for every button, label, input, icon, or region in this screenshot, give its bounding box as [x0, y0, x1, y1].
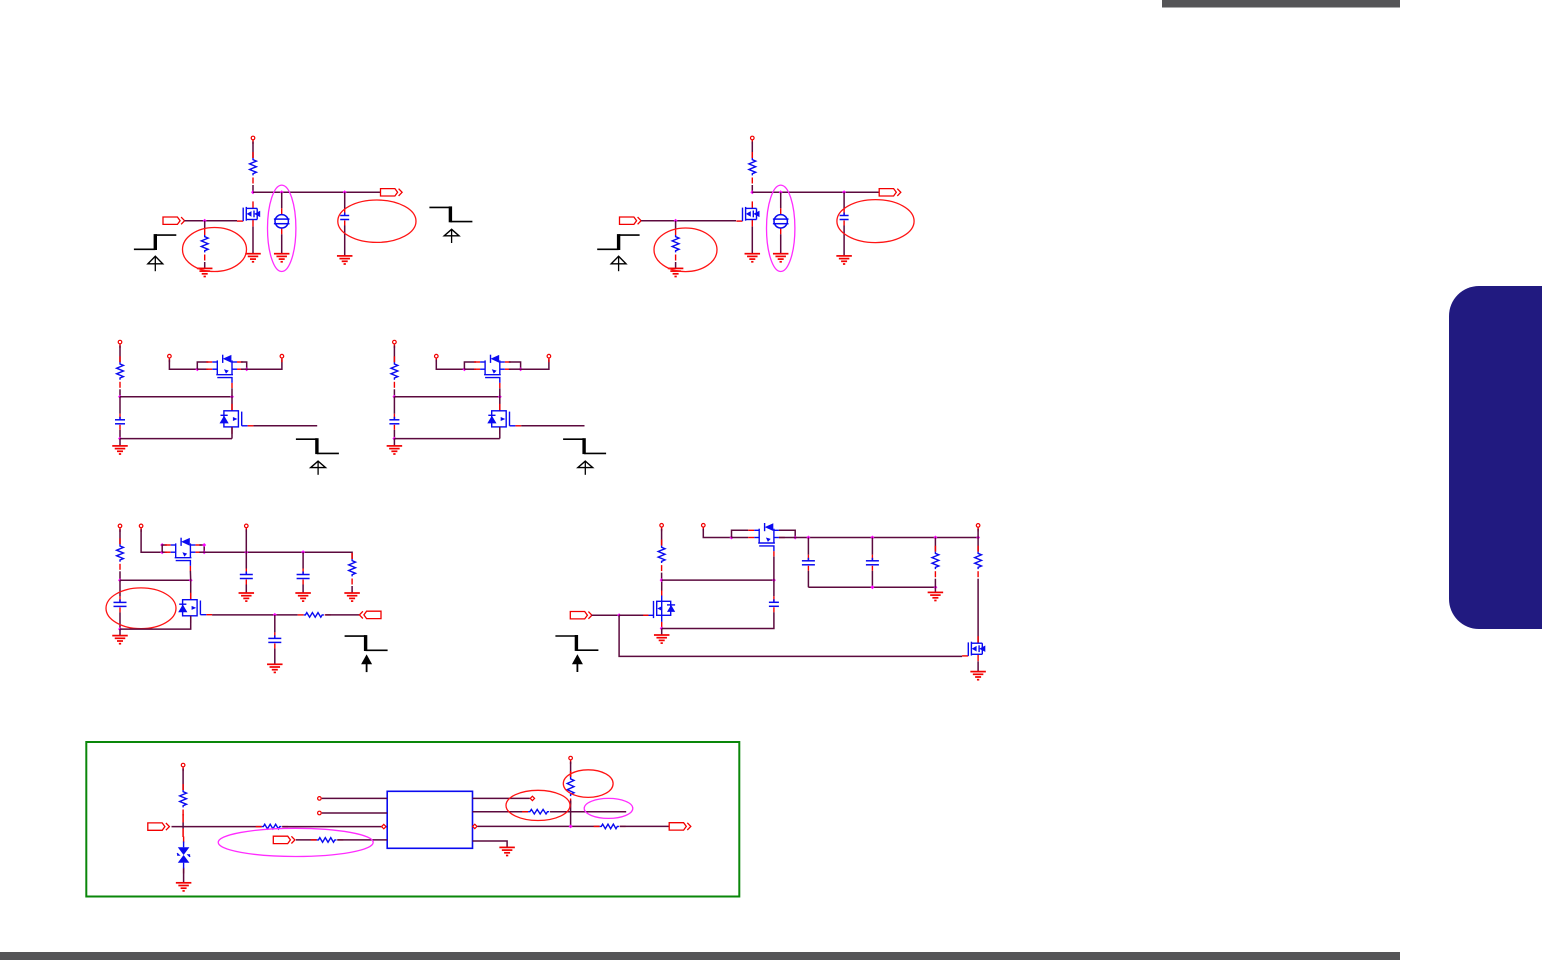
ground	[668, 268, 684, 276]
junction	[118, 578, 122, 582]
wire source	[231, 427, 233, 439]
wire	[296, 839, 317, 841]
wire loop	[241, 362, 247, 369]
wire	[182, 829, 184, 838]
wire	[119, 430, 121, 439]
pin	[280, 354, 284, 362]
wire output rail	[795, 537, 978, 539]
wire	[162, 551, 167, 553]
junction	[498, 395, 502, 399]
wire	[182, 814, 184, 823]
wire long drop	[977, 579, 979, 644]
wire	[282, 826, 387, 828]
wire	[199, 551, 204, 553]
mosfet (low side)	[178, 593, 212, 623]
pin	[702, 524, 706, 532]
output connector	[381, 189, 403, 196]
wire	[119, 629, 121, 636]
wire	[977, 529, 979, 552]
wire gate out	[212, 614, 298, 616]
wire source	[977, 661, 979, 671]
resistor	[522, 809, 556, 814]
wire	[302, 552, 304, 568]
wire	[344, 226, 346, 256]
wire	[322, 797, 388, 799]
mosfet (high side)	[474, 355, 511, 388]
wire	[119, 529, 121, 544]
wire source	[499, 427, 501, 439]
wire	[570, 800, 572, 826]
pin	[245, 524, 249, 532]
capacitor	[802, 555, 815, 571]
wire	[182, 769, 184, 791]
wire	[570, 762, 572, 778]
wire	[183, 869, 185, 883]
wire	[274, 615, 276, 633]
junction	[730, 536, 734, 540]
wire	[169, 360, 197, 370]
ground	[836, 256, 852, 264]
wire	[325, 614, 359, 616]
highlight ellipse magenta	[218, 828, 373, 856]
ground	[654, 635, 670, 643]
pin	[318, 797, 322, 801]
ground	[267, 664, 283, 672]
mosfet (low side)	[220, 404, 254, 434]
wire	[751, 185, 753, 192]
mosfet Q2	[736, 201, 759, 226]
wire	[661, 629, 663, 636]
wire	[662, 612, 774, 628]
junction	[202, 543, 206, 547]
wire loop	[197, 362, 208, 369]
wire mid rail	[394, 396, 499, 398]
falling-edge marker	[296, 438, 339, 475]
falling-edge marker	[563, 438, 606, 475]
wire source rail	[120, 616, 191, 629]
ground	[773, 254, 789, 262]
wire	[204, 221, 206, 229]
circuit 6: discharge circuit	[555, 523, 985, 680]
capacitor	[240, 569, 253, 585]
wire mid rail	[120, 396, 232, 398]
pin	[473, 824, 477, 828]
capacitor	[866, 555, 879, 571]
ground	[499, 847, 514, 855]
wire	[751, 142, 753, 159]
wire	[620, 825, 670, 827]
capacitor C2	[840, 210, 849, 226]
wire	[281, 192, 283, 208]
output connector	[879, 189, 901, 196]
wire	[675, 221, 677, 229]
protection device D2	[773, 208, 789, 234]
wire gate drop	[231, 388, 233, 397]
wire	[197, 368, 208, 370]
green highlight box	[86, 742, 739, 897]
wire mid rail	[120, 579, 191, 581]
wire bottom rail	[120, 438, 232, 440]
wire	[393, 397, 395, 414]
junction	[976, 536, 980, 540]
circuit 3: charger switch	[112, 340, 339, 474]
wire	[934, 579, 936, 588]
resistor	[298, 613, 331, 618]
ground	[112, 446, 128, 454]
wire	[245, 529, 247, 568]
wire drain	[190, 580, 192, 599]
wire source	[252, 227, 254, 254]
wire	[464, 368, 476, 370]
highlight ellipse red	[183, 228, 247, 272]
resistor	[256, 824, 289, 829]
power pin	[393, 340, 397, 348]
pin	[530, 796, 534, 800]
falling-edge marker	[429, 206, 472, 243]
resistor	[391, 356, 398, 388]
resistor	[117, 538, 124, 570]
power pin	[181, 763, 185, 771]
resistor	[349, 553, 356, 585]
wire	[436, 360, 464, 370]
ground	[970, 672, 986, 680]
wire gate run	[619, 615, 962, 656]
wire	[119, 612, 121, 629]
highlight ellipse red	[837, 200, 914, 243]
power pin	[976, 524, 980, 532]
junction	[251, 190, 255, 194]
junction	[772, 578, 776, 582]
wire	[252, 142, 254, 159]
junction	[160, 543, 164, 547]
wire drain	[231, 397, 233, 411]
wire	[779, 537, 795, 539]
protection device D1	[274, 208, 290, 234]
wire	[241, 368, 247, 370]
wire	[322, 812, 388, 814]
wire	[843, 226, 845, 256]
ground	[745, 254, 761, 262]
wire net OUT2	[752, 191, 879, 193]
junction	[195, 367, 199, 371]
output connector	[669, 823, 691, 830]
ground	[176, 883, 192, 891]
junction	[933, 585, 937, 589]
junction	[660, 627, 664, 631]
wire loop	[509, 362, 521, 369]
wire	[934, 538, 936, 552]
junction	[392, 395, 396, 399]
wire stub	[550, 811, 626, 813]
wire	[661, 573, 663, 581]
junction	[343, 190, 347, 194]
wire source	[751, 227, 753, 254]
capacitor	[389, 414, 399, 430]
ground	[245, 254, 261, 262]
junction	[273, 613, 277, 617]
resistor R3	[749, 152, 756, 184]
wire	[393, 389, 395, 396]
junction	[189, 578, 193, 582]
junction	[118, 395, 122, 399]
wire bottom rail	[394, 438, 499, 440]
junction	[870, 536, 874, 540]
wire	[119, 439, 121, 446]
wire	[393, 430, 395, 439]
ground	[274, 254, 290, 262]
power pin	[569, 756, 573, 764]
junction	[870, 585, 874, 589]
resistor	[594, 824, 626, 829]
side navigation tab	[1449, 286, 1542, 629]
wire net OUT1	[253, 191, 381, 193]
ground	[112, 636, 128, 644]
highlight ellipse magenta	[767, 185, 795, 271]
circuit 5: regulator switch	[106, 524, 388, 672]
wire gate out	[253, 425, 317, 427]
wire	[337, 839, 387, 841]
circuit 1: power switch	[134, 136, 473, 276]
pin	[318, 811, 322, 815]
junction	[245, 367, 249, 371]
power pin	[118, 340, 122, 348]
wire	[661, 529, 663, 546]
junction	[244, 550, 248, 554]
input connector	[570, 612, 592, 619]
wire	[732, 537, 749, 539]
wire	[592, 614, 620, 616]
pin	[547, 354, 551, 362]
resistor	[311, 838, 344, 843]
junction	[674, 219, 678, 223]
wire	[871, 571, 873, 588]
mosfet Q1	[237, 201, 260, 226]
wire	[245, 585, 247, 594]
wire gate	[641, 220, 736, 222]
wire	[119, 397, 121, 414]
power pin	[118, 524, 122, 532]
junction	[160, 550, 164, 554]
wire	[703, 529, 731, 538]
junction	[660, 578, 664, 582]
junction	[230, 395, 234, 399]
highlight ellipse red	[654, 228, 717, 272]
wire	[247, 360, 282, 370]
wire	[473, 797, 530, 799]
pin	[139, 524, 143, 532]
wire	[509, 368, 521, 370]
wire main in	[172, 826, 262, 828]
junction	[118, 627, 122, 631]
mosfet (high side)	[748, 523, 785, 556]
wire loop	[199, 545, 204, 552]
resistor	[180, 784, 187, 816]
capacitor	[268, 632, 281, 648]
wire	[871, 538, 873, 555]
pin	[435, 354, 439, 362]
highlight ellipse red	[506, 790, 570, 820]
junction	[301, 550, 305, 554]
wire	[393, 439, 395, 446]
wire	[393, 346, 395, 363]
junction	[203, 219, 207, 223]
wire output rail	[204, 552, 352, 559]
resistor R4	[672, 229, 679, 261]
resistor	[932, 546, 939, 578]
highlight ellipse magenta	[268, 185, 296, 271]
junction	[617, 613, 621, 617]
rising-edge marker	[345, 635, 388, 672]
junction	[392, 437, 396, 441]
wire	[119, 571, 121, 580]
wire	[119, 346, 121, 363]
green box circuit	[148, 756, 691, 891]
resistor	[975, 546, 982, 578]
wire	[780, 234, 782, 253]
ground	[295, 593, 311, 601]
bottom scrollbar	[0, 952, 1400, 960]
wire	[807, 538, 809, 555]
junction	[806, 536, 810, 540]
ground	[239, 593, 255, 601]
capacitor	[114, 596, 127, 612]
input connector	[273, 836, 295, 843]
resistor R2	[201, 229, 208, 261]
wire	[351, 586, 353, 593]
wire	[521, 360, 549, 370]
mosfet (high side)	[206, 355, 243, 388]
resistor R1	[250, 152, 257, 184]
wire cap rail	[808, 586, 935, 588]
wire	[302, 585, 304, 594]
wire loop	[732, 530, 749, 537]
mosfet Q6b	[962, 636, 985, 661]
highlight ellipse red	[106, 588, 176, 629]
input connector	[148, 823, 170, 830]
wire gate drop	[773, 556, 775, 580]
junction	[202, 550, 206, 554]
wire	[274, 648, 276, 664]
mosfet (low side)	[487, 404, 521, 434]
wire	[780, 192, 782, 208]
wire	[141, 529, 162, 552]
capacitor	[769, 596, 779, 612]
wire drain	[499, 397, 501, 411]
wire	[473, 841, 508, 847]
wire main out	[477, 825, 599, 827]
wire mid rail	[662, 579, 774, 581]
junction	[280, 190, 284, 194]
wire drain	[661, 580, 663, 590]
highlight ellipse red	[338, 200, 416, 242]
wire gate drop	[499, 388, 501, 397]
falling-edge marker	[597, 234, 639, 271]
ground	[197, 268, 213, 276]
wire	[675, 262, 677, 268]
junction	[793, 536, 797, 540]
rising-edge marker	[555, 635, 598, 672]
junction	[118, 437, 122, 441]
power pin	[660, 524, 664, 532]
falling-edge marker	[134, 234, 176, 271]
wire loop	[464, 362, 476, 369]
wire gate	[619, 614, 648, 616]
wire	[252, 185, 254, 192]
input connector	[620, 217, 642, 224]
capacitor C1	[340, 210, 349, 226]
highlight ellipse red	[563, 770, 613, 798]
junction	[933, 536, 937, 540]
power pin P1	[251, 136, 255, 144]
wire	[843, 192, 845, 209]
wire loop	[162, 545, 167, 552]
mosfet Q6a	[643, 590, 675, 628]
IC U1	[387, 791, 472, 848]
junction	[569, 824, 573, 828]
wire	[473, 811, 529, 813]
wire loop	[779, 530, 795, 537]
wire	[119, 389, 121, 396]
top toolbar fragment	[1162, 0, 1400, 8]
highlight ellipse magenta	[584, 798, 633, 818]
input connector	[163, 217, 185, 224]
wire	[119, 580, 121, 596]
resistor	[658, 540, 665, 572]
wire	[773, 580, 775, 596]
ground	[928, 592, 944, 600]
circuit 4: charger switch	[387, 340, 606, 474]
output connector	[359, 611, 381, 618]
wire gate out	[521, 425, 584, 427]
power pin P2	[751, 136, 755, 144]
junction	[462, 367, 466, 371]
resistor	[567, 771, 574, 805]
wire	[807, 571, 809, 588]
ground	[337, 256, 353, 264]
TVS diode D3	[177, 837, 190, 874]
pin	[382, 824, 386, 828]
capacitor	[297, 569, 310, 585]
wire gate	[185, 220, 237, 222]
wire	[934, 587, 936, 592]
capacitor	[115, 414, 125, 430]
junction	[779, 190, 783, 194]
wire source	[661, 627, 663, 629]
circuit 2: power switch	[597, 136, 914, 276]
ground	[344, 593, 360, 601]
junction	[519, 367, 523, 371]
mosfet (high side)	[165, 538, 202, 571]
junction	[750, 190, 754, 194]
wire	[344, 192, 346, 209]
wire	[281, 234, 283, 253]
wire	[204, 262, 206, 268]
ground	[387, 446, 403, 454]
resistor	[117, 356, 124, 388]
junction	[842, 190, 846, 194]
wire	[182, 823, 184, 829]
pin	[168, 354, 172, 362]
wire gate drop	[189, 571, 191, 580]
